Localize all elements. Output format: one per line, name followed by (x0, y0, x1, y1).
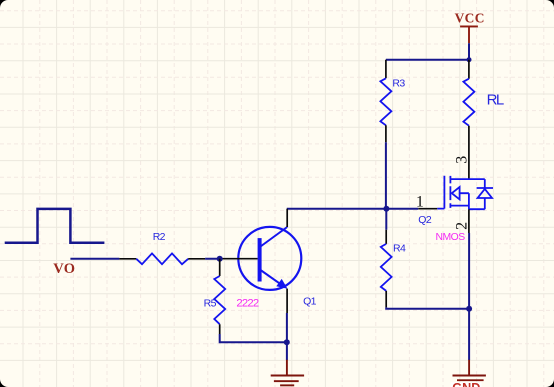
resistor R4 (381, 230, 406, 308)
ground left (271, 360, 304, 387)
resistor RL (463, 60, 504, 179)
svg-text:GND: GND (452, 381, 480, 387)
emitter pin (286, 289, 288, 313)
wire top node to R3 (386, 59, 469, 61)
wire emitter to ground (286, 313, 288, 360)
wire R3 bottom to gate node (385, 142, 387, 209)
wire R4 bottom to source node (386, 307, 469, 308)
junction top node (467, 57, 472, 62)
svg-text:R3: R3 (392, 77, 405, 89)
junction source node (466, 306, 472, 312)
wire R5 bottom elbow to emitter node (220, 334, 287, 342)
pulse waveform (5, 209, 105, 243)
resistor R5 (204, 259, 226, 334)
svg-text:2222: 2222 (236, 298, 258, 310)
power port VCC (455, 11, 485, 44)
svg-text:3: 3 (453, 156, 470, 164)
svg-text:2: 2 (454, 222, 471, 230)
svg-text:NMOS: NMOS (436, 232, 466, 243)
pin 1 (gate) (418, 208, 437, 210)
svg-text:VO: VO (53, 261, 75, 277)
junction base node (217, 256, 223, 262)
transistor Q1 (221, 209, 317, 313)
nmos Q2 (416, 156, 493, 243)
svg-text:VCC: VCC (455, 11, 485, 26)
svg-text:Q1: Q1 (303, 296, 317, 308)
wire gate node horizontal (287, 208, 418, 210)
wire VCC stem to junction (468, 43, 470, 59)
junction gate node (383, 206, 389, 212)
wire R2 to base node (205, 258, 220, 260)
wire VO to R2 (70, 258, 119, 260)
base pin (221, 258, 258, 260)
ground right (451, 360, 486, 387)
svg-text:R2: R2 (153, 231, 166, 243)
svg-text:R4: R4 (393, 243, 406, 255)
svg-text:Q2: Q2 (418, 214, 432, 226)
svg-text:RL: RL (487, 91, 504, 108)
resistor R2 (119, 231, 205, 264)
wire source to ground (468, 233, 470, 360)
collector pin (286, 209, 288, 227)
resistor R3 (380, 60, 405, 143)
svg-text:R5: R5 (204, 298, 217, 310)
wire gate node down to R4 (385, 209, 387, 230)
pin 2 (source) (468, 209, 470, 233)
junction emitter node (284, 339, 290, 345)
